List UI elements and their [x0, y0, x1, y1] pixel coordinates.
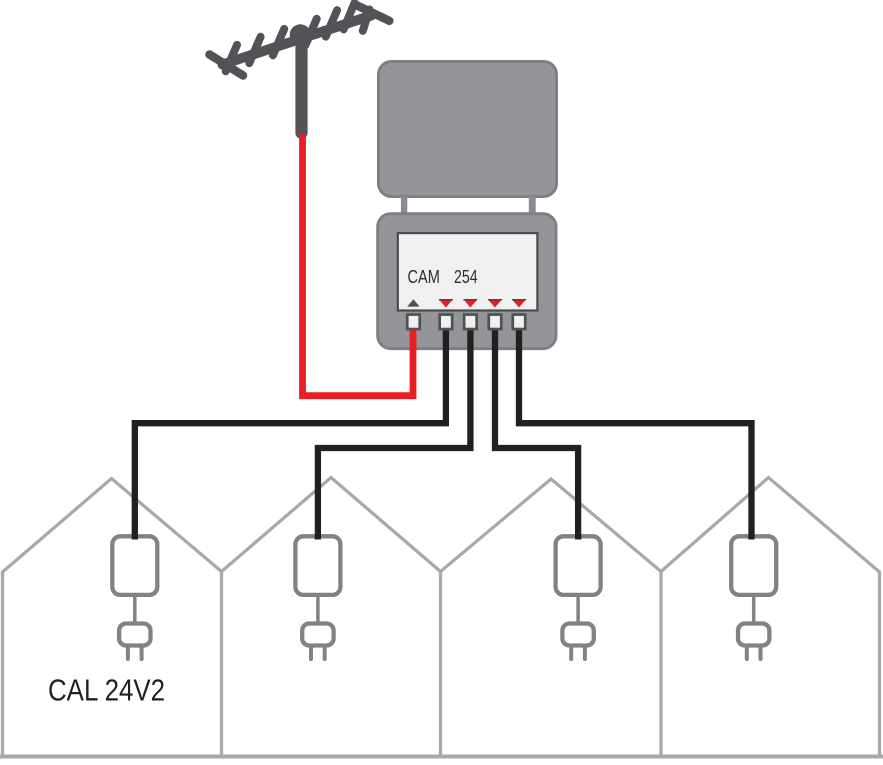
svg-text:CAL 24V2: CAL 24V2 [48, 674, 165, 708]
output red triangle 4 [512, 299, 526, 307]
port 5 [513, 315, 526, 330]
hinge right [529, 196, 536, 215]
house 3 wall outlet [556, 536, 601, 659]
house 1 [3, 479, 222, 758]
antenna front rod [357, 5, 390, 21]
house row outlines [0, 478, 883, 758]
antenna element 1 [226, 45, 237, 71]
antenna A1 [210, 3, 390, 133]
red coax cable from antenna to input port [303, 134, 414, 396]
amplifier body [378, 214, 556, 349]
black cable port3 to house2 outlet [318, 329, 471, 540]
port 3 [464, 315, 477, 330]
antenna element 7 [363, 10, 370, 31]
plug prong left [126, 647, 130, 659]
port 4 [489, 315, 502, 330]
house 2 [222, 478, 441, 758]
amplifier label plate [398, 233, 538, 310]
antenna boom [223, 16, 372, 65]
amplifier lid [379, 62, 557, 197]
output red triangle 3 [488, 299, 502, 307]
black cable port4 to house3 outlet [495, 329, 578, 540]
svg-text:CAM: CAM [408, 266, 440, 287]
input up-triangle [407, 299, 419, 306]
red triangle top edges [439, 299, 453, 301]
black cable port5 to house4 outlet [519, 329, 752, 540]
antenna element 5 [326, 10, 337, 36]
output red triangle 2 [463, 299, 477, 307]
house 1 wall outlet [112, 536, 157, 659]
black cable port2 to house1 outlet [135, 329, 446, 540]
antenna reflector [210, 55, 244, 76]
svg-text:254: 254 [454, 266, 478, 287]
ground line [0, 755, 883, 759]
house 4 wall outlet [731, 536, 776, 659]
outlet-plug link [133, 595, 137, 624]
antenna element 2 [249, 37, 260, 63]
house 3 [441, 479, 662, 757]
plug prong right [140, 647, 144, 659]
antenna element 4 [305, 19, 316, 45]
house 2 wall outlet [295, 536, 340, 659]
hinge left [401, 196, 407, 215]
antenna element 6 [344, 3, 355, 29]
antenna element 3 [273, 29, 284, 55]
antenna mast [295, 40, 307, 133]
antenna hub [290, 24, 311, 45]
plug body [119, 624, 150, 646]
port 2 [440, 315, 453, 330]
port 1 (input) [407, 315, 420, 330]
output red triangle 1 [439, 299, 453, 307]
house 4 [661, 478, 880, 758]
